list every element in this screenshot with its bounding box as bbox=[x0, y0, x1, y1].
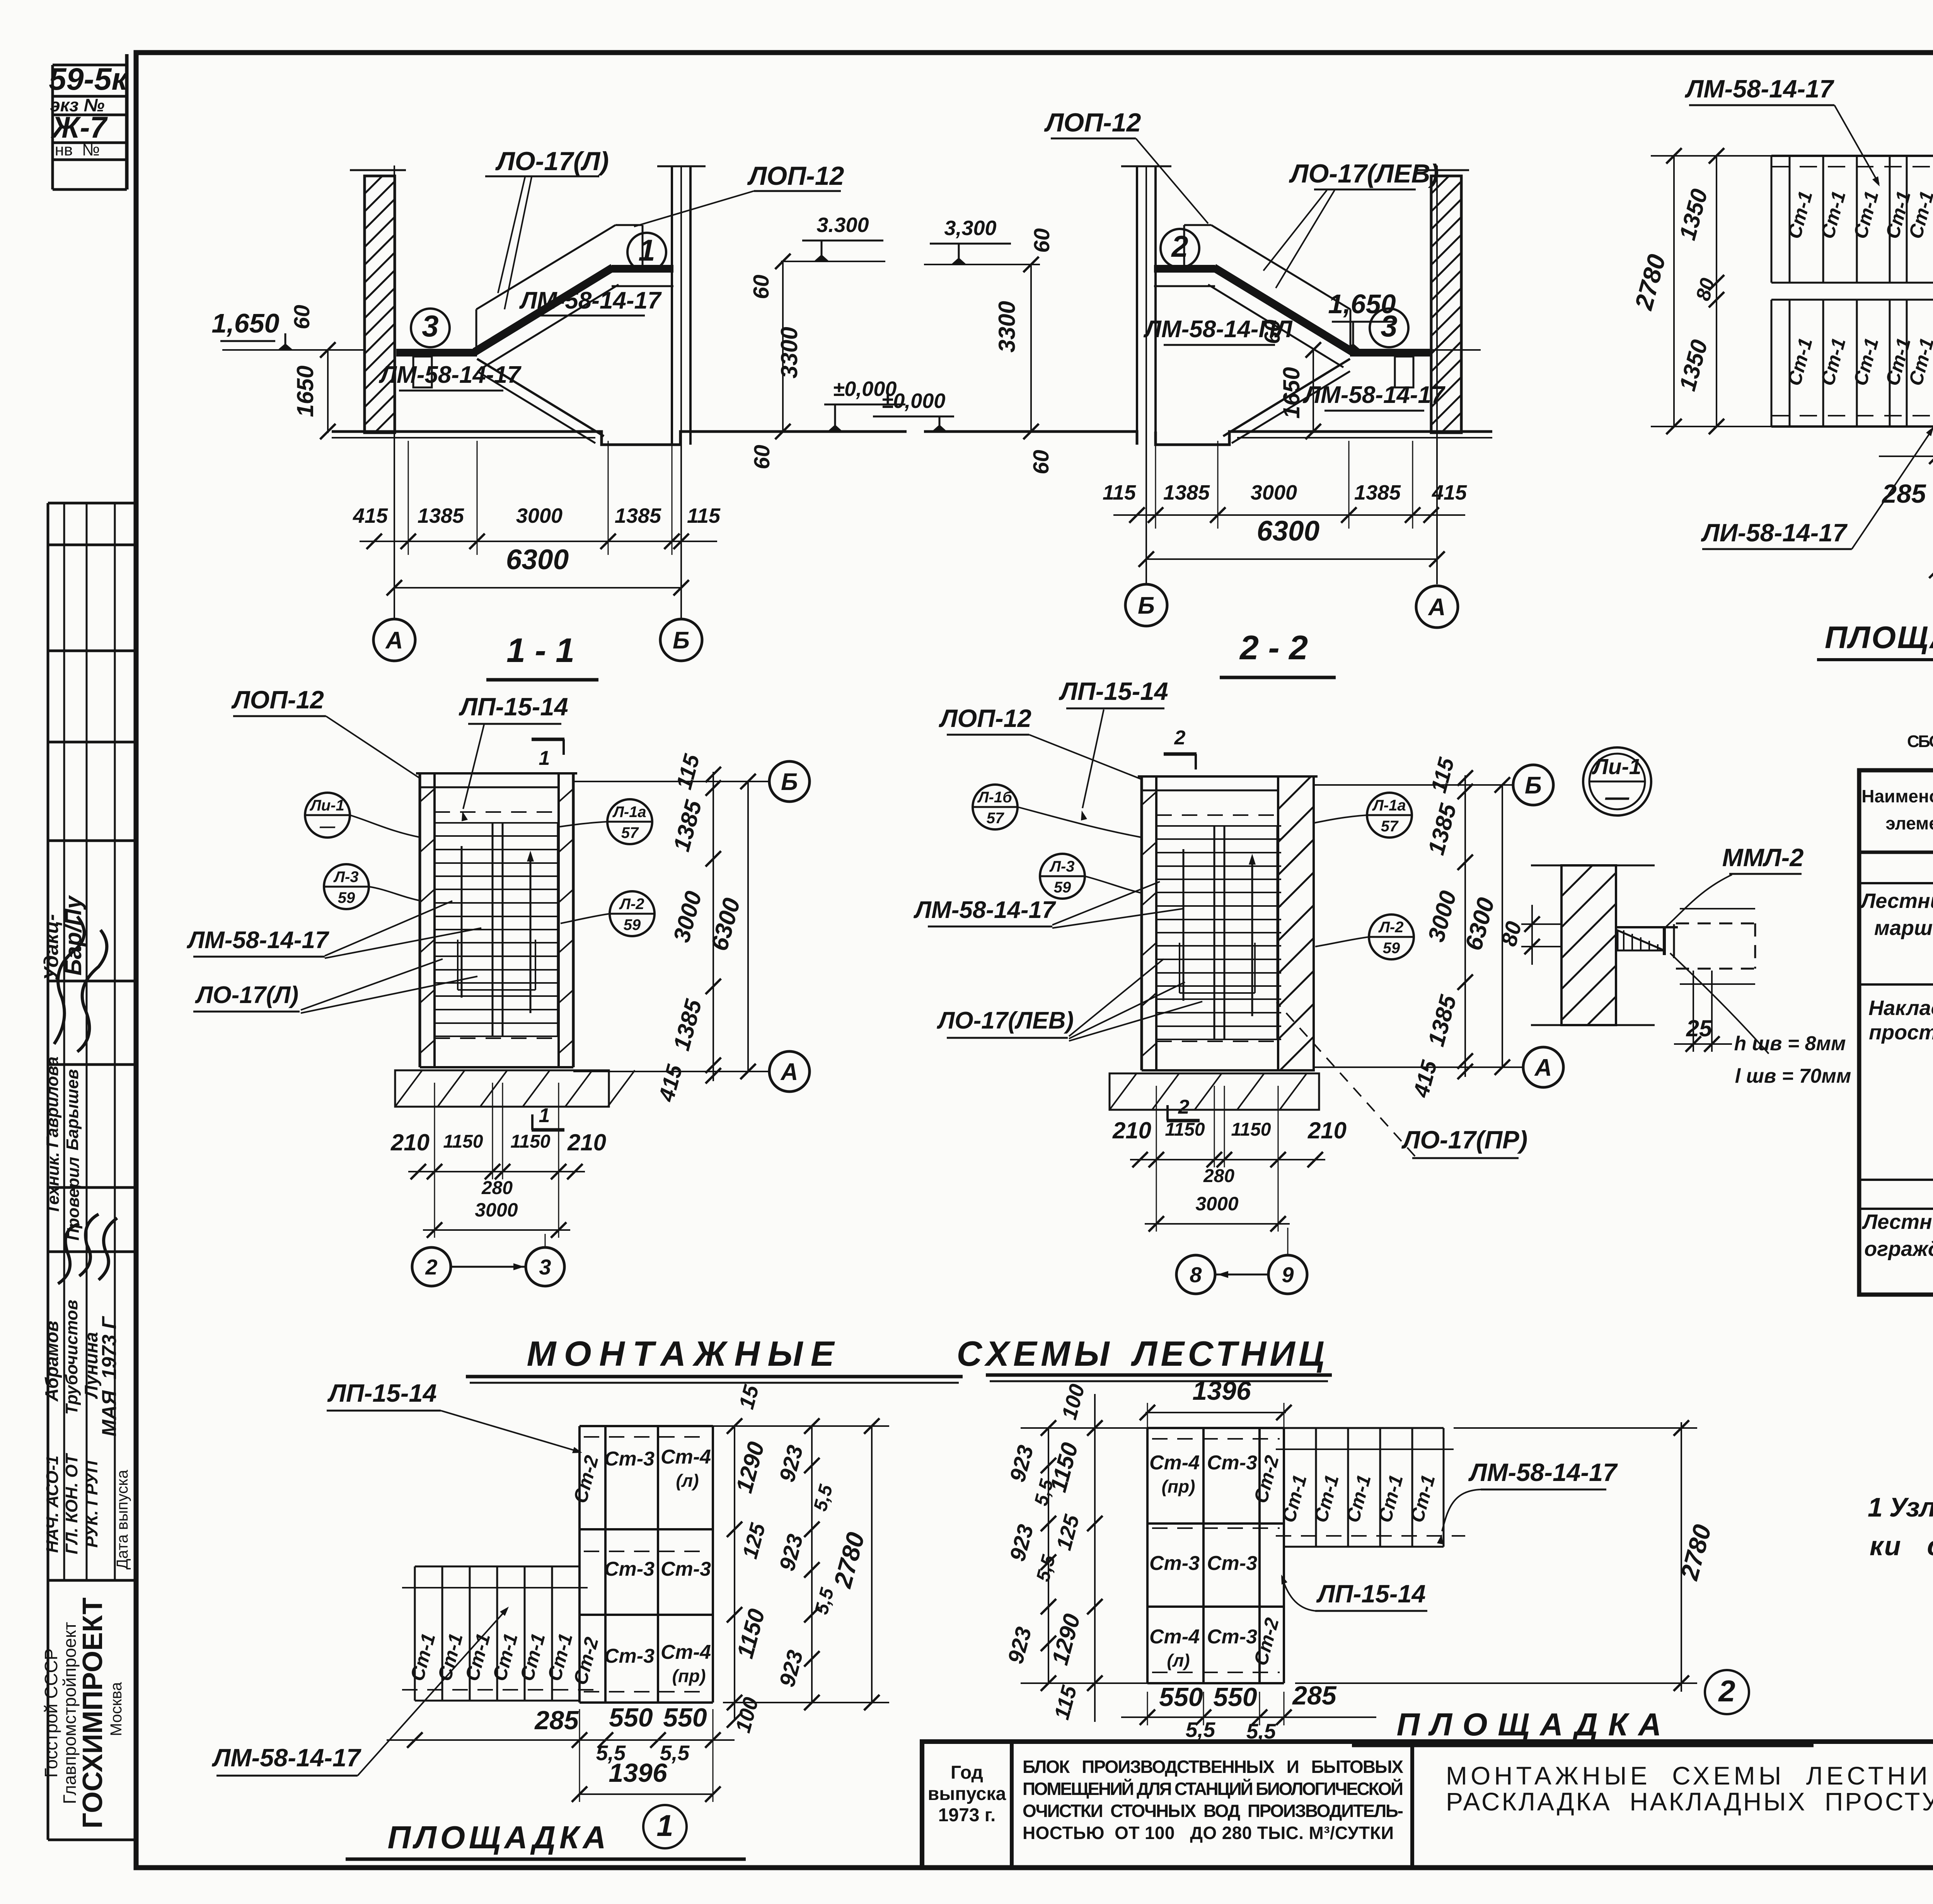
svg-text:415: 415 bbox=[353, 504, 388, 527]
svg-text:НОСТЬЮ ОТ 100 ДО 280 ТЫС. М: НОСТЬЮ ОТ 100 ДО 280 ТЫС. М³/СУТКИ bbox=[1023, 1823, 1394, 1843]
svg-text:ПЛОЩАДКА: ПЛОЩАДКА bbox=[1397, 1706, 1662, 1742]
svg-text:ЛМ-58-14-17: ЛМ-58-14-17 bbox=[378, 362, 522, 388]
svg-text:Ст-4: Ст-4 bbox=[1149, 1452, 1200, 1474]
svg-text:ЛМ-58-14-17: ЛМ-58-14-17 bbox=[1302, 382, 1445, 408]
svg-text:ПЛОЩАДКА: ПЛОЩАДКА bbox=[1825, 620, 1933, 655]
svg-text:57: 57 bbox=[621, 824, 639, 841]
svg-text:Ли-1: Ли-1 bbox=[309, 797, 344, 814]
svg-text:Б: Б bbox=[673, 627, 690, 654]
svg-text:СХЕМЫ: СХЕМЫ bbox=[957, 1334, 1110, 1373]
svg-text:ЛО-17(ЛЕВ): ЛО-17(ЛЕВ) bbox=[1289, 159, 1439, 188]
svg-text:Барышев: Барышев bbox=[63, 1069, 82, 1150]
svg-text:h шв = 8мм: h шв = 8мм bbox=[1734, 1032, 1846, 1055]
svg-text:1385: 1385 bbox=[615, 504, 661, 527]
svg-text:1396: 1396 bbox=[609, 1758, 667, 1788]
svg-text:6300: 6300 bbox=[506, 544, 569, 575]
svg-text:115: 115 bbox=[687, 504, 721, 527]
svg-text:3300: 3300 bbox=[994, 301, 1020, 352]
svg-text:ПОМЕЩЕНИЙ ДЛЯ СТАНЦИЙ БИОЛОГИЧ: ПОМЕЩЕНИЙ ДЛЯ СТАНЦИЙ БИОЛОГИЧЕСКОЙ bbox=[1023, 1779, 1403, 1799]
svg-text:280: 280 bbox=[1203, 1166, 1234, 1186]
svg-text:115: 115 bbox=[1103, 481, 1136, 504]
svg-text:1650: 1650 bbox=[292, 365, 318, 417]
svg-text:ММЛ-2: ММЛ-2 bbox=[1722, 843, 1804, 872]
svg-text:Госстрой СССР: Госстрой СССР bbox=[41, 1648, 61, 1778]
svg-text:1: 1 bbox=[539, 1104, 550, 1127]
svg-text:—: — bbox=[1605, 784, 1630, 810]
svg-text:1,650: 1,650 bbox=[1328, 289, 1396, 319]
svg-text:Б: Б bbox=[1525, 772, 1542, 799]
svg-text:ГОСХИМПРОЕКТ: ГОСХИМПРОЕКТ bbox=[77, 1597, 108, 1828]
svg-text:Ст-4: Ст-4 bbox=[1149, 1626, 1200, 1648]
svg-text:Л-1б: Л-1б bbox=[977, 789, 1013, 806]
svg-text:1,650: 1,650 bbox=[211, 308, 279, 338]
svg-text:25: 25 bbox=[1686, 1015, 1713, 1041]
svg-text:550: 550 bbox=[609, 1703, 653, 1732]
svg-text:285: 285 bbox=[1881, 479, 1926, 508]
svg-text:ЛМ-58-14-17: ЛМ-58-14-17 bbox=[1685, 75, 1834, 103]
svg-text:60: 60 bbox=[1029, 450, 1053, 474]
svg-text:Ж-7: Ж-7 bbox=[50, 110, 108, 144]
svg-text:ПЛОЩАДКА: ПЛОЩАДКА bbox=[388, 1819, 606, 1855]
svg-text:—: — bbox=[319, 818, 336, 835]
svg-text:(пр): (пр) bbox=[1162, 1476, 1195, 1496]
svg-text:210: 210 bbox=[1307, 1117, 1347, 1143]
svg-text:2: 2 bbox=[1718, 1674, 1735, 1708]
svg-text:Дата выпуска: Дата выпуска bbox=[113, 1470, 131, 1570]
svg-text:РУК. ГРУП: РУК. ГРУП bbox=[82, 1460, 101, 1547]
svg-text:Лестничные: Лестничные bbox=[1860, 889, 1933, 913]
svg-text:нв №: нв № bbox=[55, 141, 100, 159]
svg-text:ЛО-17(Л): ЛО-17(Л) bbox=[495, 147, 609, 176]
svg-text:Ст-3: Ст-3 bbox=[1207, 1626, 1257, 1648]
svg-text:МОНТАЖНЫЕ: МОНТАЖНЫЕ bbox=[527, 1334, 835, 1373]
svg-text:ГЛ. КОН. ОТ: ГЛ. КОН. ОТ bbox=[62, 1453, 81, 1554]
svg-text:1973 г.: 1973 г. bbox=[938, 1805, 996, 1826]
svg-text:Ст-3: Ст-3 bbox=[604, 1448, 655, 1470]
svg-text:57: 57 bbox=[987, 810, 1004, 827]
svg-text:3000: 3000 bbox=[475, 1199, 518, 1221]
svg-text:1: 1 bbox=[638, 233, 655, 267]
svg-text:Год: Год bbox=[951, 1762, 983, 1783]
svg-text:Л-3: Л-3 bbox=[333, 868, 358, 885]
svg-text:1385: 1385 bbox=[1354, 481, 1401, 504]
svg-text:57: 57 bbox=[1381, 818, 1399, 835]
svg-text:ЛОП-12: ЛОП-12 bbox=[939, 704, 1031, 732]
svg-text:А: А bbox=[385, 627, 403, 654]
svg-text:ЛМ-58-14-17: ЛМ-58-14-17 bbox=[519, 287, 662, 314]
svg-text:Ст-3: Ст-3 bbox=[1207, 1552, 1257, 1575]
svg-text:БЛОК ПРОИЗВОДСТВЕННЫХ И: БЛОК ПРОИЗВОДСТВЕННЫХ И БЫТОВЫХ bbox=[1023, 1757, 1403, 1777]
svg-text:280: 280 bbox=[481, 1178, 513, 1198]
svg-text:ЛМ-58-14-17: ЛМ-58-14-17 bbox=[186, 927, 329, 954]
svg-text:1150: 1150 bbox=[510, 1131, 551, 1152]
svg-text:1150: 1150 bbox=[1165, 1119, 1205, 1140]
svg-text:Б: Б bbox=[1138, 592, 1155, 619]
svg-text:60: 60 bbox=[290, 305, 314, 329]
svg-text:59: 59 bbox=[1383, 940, 1400, 957]
svg-text:285: 285 bbox=[534, 1706, 579, 1735]
svg-text:210: 210 bbox=[390, 1129, 430, 1155]
svg-text:2: 2 bbox=[1171, 229, 1188, 263]
svg-text:1150: 1150 bbox=[443, 1131, 483, 1152]
svg-text:Ст-3: Ст-3 bbox=[604, 1645, 655, 1667]
svg-text:Ст-4: Ст-4 bbox=[661, 1641, 711, 1663]
svg-text:59: 59 bbox=[338, 889, 355, 906]
svg-text:Б: Б bbox=[781, 769, 798, 795]
svg-text:А: А bbox=[780, 1059, 798, 1085]
svg-text:ЛО-17(Л): ЛО-17(Л) bbox=[195, 982, 298, 1008]
svg-text:210: 210 bbox=[567, 1129, 606, 1155]
svg-text:А: А bbox=[1534, 1054, 1552, 1081]
svg-text:6300: 6300 bbox=[1257, 515, 1319, 547]
svg-text:Техник.: Техник. bbox=[44, 1152, 63, 1215]
svg-text:550: 550 bbox=[1213, 1682, 1257, 1712]
svg-text:проступи: проступи bbox=[1869, 1021, 1933, 1044]
svg-text:1: 1 bbox=[539, 747, 550, 769]
svg-text:1: 1 bbox=[656, 1808, 673, 1843]
svg-text:ЛОП-12: ЛОП-12 bbox=[747, 161, 844, 191]
svg-text:МАЯ 1973 Г: МАЯ 1973 Г bbox=[98, 1316, 121, 1437]
svg-text:1396: 1396 bbox=[1192, 1376, 1251, 1406]
svg-text:Ст-3: Ст-3 bbox=[1149, 1552, 1200, 1575]
svg-text:3: 3 bbox=[422, 309, 438, 343]
svg-text:ЛОП-12: ЛОП-12 bbox=[231, 686, 324, 714]
svg-text:Л-1а: Л-1а bbox=[1372, 797, 1406, 814]
svg-text:Трубочистов: Трубочистов bbox=[62, 1300, 81, 1414]
svg-text:3000: 3000 bbox=[1195, 1193, 1238, 1215]
svg-text:210: 210 bbox=[1112, 1117, 1151, 1143]
svg-text:Л-2: Л-2 bbox=[619, 896, 644, 913]
svg-text:Л-1а: Л-1а bbox=[612, 804, 646, 821]
svg-text:59: 59 bbox=[624, 916, 641, 933]
svg-text:3000: 3000 bbox=[516, 504, 563, 527]
svg-text:60: 60 bbox=[749, 275, 774, 299]
svg-text:ЛМ-58-14-17: ЛМ-58-14-17 bbox=[913, 897, 1056, 923]
svg-text:3000: 3000 bbox=[1251, 481, 1297, 504]
svg-text:Накладные: Накладные bbox=[1868, 996, 1933, 1020]
svg-text:Лестничные: Лестничные bbox=[1861, 1210, 1933, 1234]
svg-text:Наименование: Наименование bbox=[1861, 786, 1933, 806]
svg-text:ЛМ-58-14-17: ЛМ-58-14-17 bbox=[1468, 1458, 1618, 1486]
svg-text:элемента: элемента bbox=[1885, 813, 1933, 833]
svg-text:ЛП-15-14: ЛП-15-14 bbox=[1059, 677, 1168, 705]
svg-text:1 - 1: 1 - 1 bbox=[506, 631, 574, 669]
svg-text:(л): (л) bbox=[1167, 1650, 1190, 1670]
svg-text:60: 60 bbox=[750, 445, 774, 469]
svg-text:l шв = 70мм: l шв = 70мм bbox=[1735, 1065, 1851, 1087]
svg-text:Ст-3: Ст-3 bbox=[1207, 1452, 1257, 1474]
svg-text:3: 3 bbox=[539, 1255, 551, 1279]
svg-text:марши: марши bbox=[1874, 916, 1933, 940]
svg-text:Ст-3: Ст-3 bbox=[661, 1558, 711, 1580]
svg-text:(пр): (пр) bbox=[672, 1666, 706, 1686]
svg-text:3.300: 3.300 bbox=[816, 213, 869, 237]
svg-text:550: 550 bbox=[663, 1703, 707, 1732]
svg-text:415: 415 bbox=[1432, 481, 1467, 504]
svg-text:ЛО-17(ПР): ЛО-17(ПР) bbox=[1401, 1126, 1528, 1154]
svg-text:3300: 3300 bbox=[776, 327, 802, 378]
svg-text:Л-2: Л-2 bbox=[1378, 919, 1403, 936]
svg-text:РАСКЛАДКА НАКЛАДНЫХ ПРОСТУПЕ: РАСКЛАДКА НАКЛАДНЫХ ПРОСТУПЕЙ. bbox=[1446, 1787, 1933, 1816]
svg-text:ЛМ-58-14-17: ЛМ-58-14-17 bbox=[212, 1744, 361, 1772]
svg-text:А: А bbox=[1428, 594, 1446, 621]
svg-text:(л): (л) bbox=[676, 1471, 699, 1491]
svg-text:СБОРНЫХ БЕТОННЫХ, ЖЕЛЕЗОБЕТО: СБОРНЫХ БЕТОННЫХ, ЖЕЛЕЗОБЕТОННЫХ И СТАЛЬ… bbox=[1907, 732, 1933, 751]
svg-text:ЛОП-12: ЛОП-12 bbox=[1044, 108, 1141, 137]
svg-text:1385: 1385 bbox=[418, 504, 464, 527]
svg-text:Гаврилова: Гаврилова bbox=[43, 1056, 62, 1147]
svg-text:2 - 2: 2 - 2 bbox=[1239, 628, 1308, 667]
svg-text:Москва: Москва bbox=[107, 1682, 125, 1736]
svg-text:выпуска: выпуска bbox=[928, 1784, 1006, 1804]
svg-text:Абрамов: Абрамов bbox=[41, 1321, 62, 1402]
svg-text:Ли-1: Ли-1 bbox=[1592, 754, 1642, 779]
svg-text:Ст-4: Ст-4 bbox=[661, 1446, 711, 1468]
svg-text:2: 2 bbox=[1174, 727, 1186, 749]
svg-text:ЛП-15-14: ЛП-15-14 bbox=[327, 1379, 436, 1407]
svg-text:9: 9 bbox=[1282, 1263, 1294, 1287]
svg-text:285: 285 bbox=[1292, 1681, 1337, 1710]
svg-text:±0,000: ±0,000 bbox=[882, 389, 946, 413]
svg-text:2: 2 bbox=[425, 1255, 437, 1279]
svg-text:Ст-3: Ст-3 bbox=[604, 1558, 655, 1580]
svg-text:59-5к: 59-5к bbox=[49, 62, 129, 97]
svg-text:Л-3: Л-3 bbox=[1049, 858, 1074, 875]
svg-text:3,300: 3,300 bbox=[944, 217, 996, 240]
svg-text:60: 60 bbox=[1030, 228, 1054, 253]
svg-text:ЛП-15-14: ЛП-15-14 bbox=[459, 693, 568, 721]
svg-text:ЛИ-58-14-17: ЛИ-58-14-17 bbox=[1701, 519, 1848, 547]
svg-text:5,5: 5,5 bbox=[1186, 1718, 1216, 1742]
svg-text:1650: 1650 bbox=[1278, 367, 1304, 418]
svg-text:8: 8 bbox=[1190, 1263, 1202, 1287]
svg-text:ОЧИСТКИ СТОЧНЫХ ВОД ПРОИЗВО: ОЧИСТКИ СТОЧНЫХ ВОД ПРОИЗВОДИТЕЛЬ- bbox=[1023, 1801, 1403, 1821]
svg-text:ЛП-15-14: ЛП-15-14 bbox=[1316, 1580, 1425, 1608]
svg-text:1385: 1385 bbox=[1163, 481, 1210, 504]
svg-text:550: 550 bbox=[1159, 1682, 1203, 1712]
svg-text:ограждения: ограждения bbox=[1864, 1237, 1933, 1261]
svg-text:ЛО-17(ЛЕВ): ЛО-17(ЛЕВ) bbox=[937, 1007, 1074, 1034]
svg-text:59: 59 bbox=[1054, 879, 1071, 896]
svg-text:НАЧ. АСО-1: НАЧ. АСО-1 bbox=[43, 1455, 62, 1553]
svg-text:1150: 1150 bbox=[1231, 1119, 1271, 1140]
svg-text:2: 2 bbox=[1178, 1096, 1190, 1118]
svg-text:1 Узлы крепления элемент: 1 Узлы крепления элементов лестничной кл… bbox=[1868, 1492, 1933, 1522]
svg-text:60: 60 bbox=[1260, 319, 1285, 344]
svg-text:Главпромстройпроект: Главпромстройпроект bbox=[60, 1622, 80, 1804]
